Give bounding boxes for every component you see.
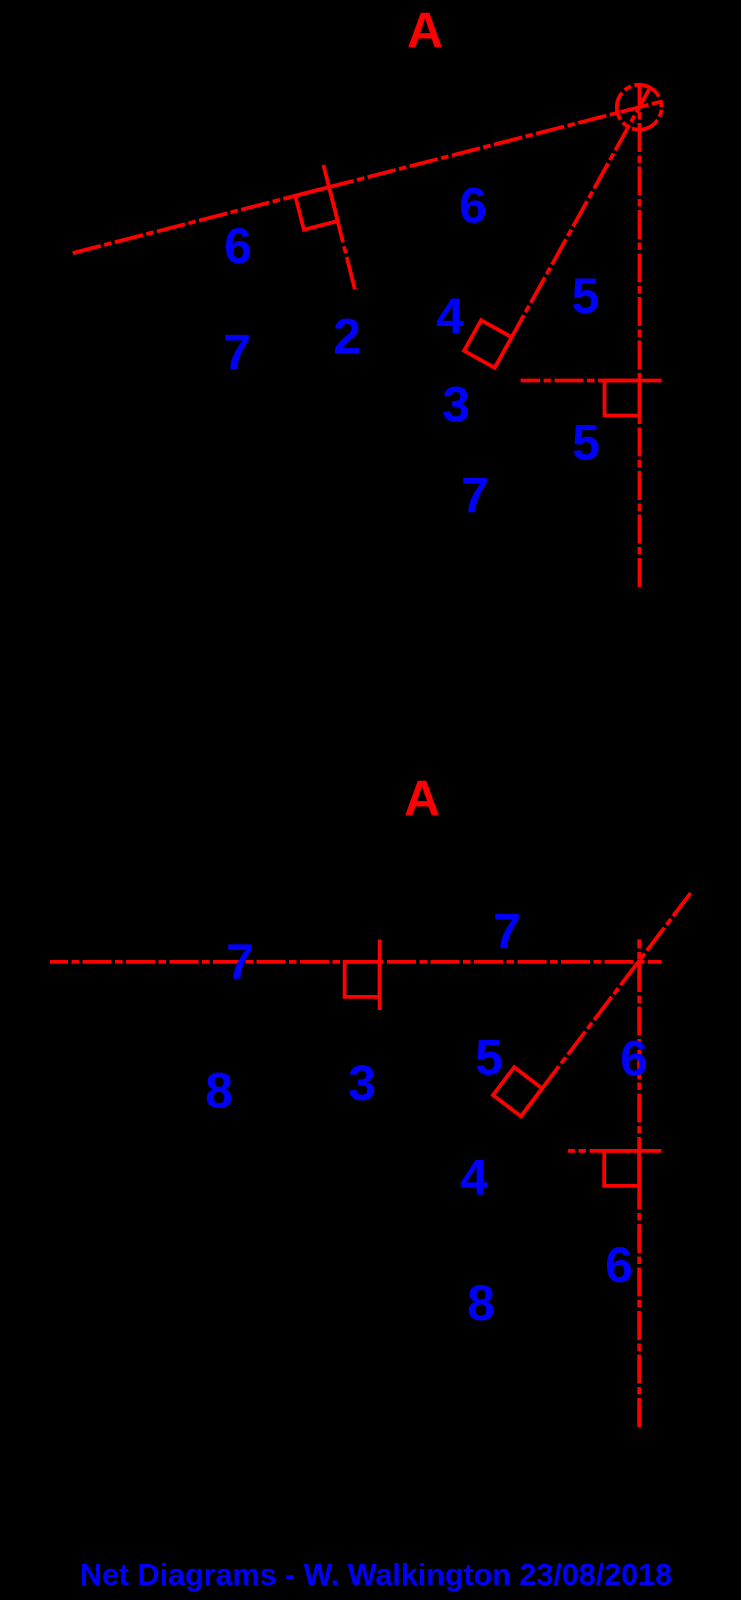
svg-text:8: 8 — [205, 1062, 233, 1118]
svg-text:6: 6 — [459, 177, 487, 233]
svg-text:A: A — [407, 3, 443, 59]
svg-text:5: 5 — [572, 415, 600, 471]
svg-text:7: 7 — [461, 468, 489, 524]
svg-text:7: 7 — [223, 325, 251, 381]
svg-text:3: 3 — [442, 377, 470, 433]
svg-text:2: 2 — [333, 309, 361, 365]
svg-text:Net Diagrams - W. Walkington 2: Net Diagrams - W. Walkington 23/08/2018 — [80, 1558, 672, 1592]
svg-text:7: 7 — [226, 934, 254, 990]
svg-text:5: 5 — [572, 268, 600, 324]
svg-text:6: 6 — [620, 1031, 648, 1087]
svg-text:5: 5 — [475, 1030, 503, 1086]
svg-text:A: A — [404, 771, 440, 827]
svg-text:4: 4 — [460, 1150, 488, 1206]
svg-text:7: 7 — [493, 904, 521, 960]
svg-text:3: 3 — [348, 1055, 376, 1111]
svg-text:6: 6 — [224, 218, 252, 274]
svg-text:4: 4 — [436, 288, 464, 344]
svg-text:8: 8 — [467, 1275, 495, 1331]
svg-text:6: 6 — [605, 1237, 633, 1293]
